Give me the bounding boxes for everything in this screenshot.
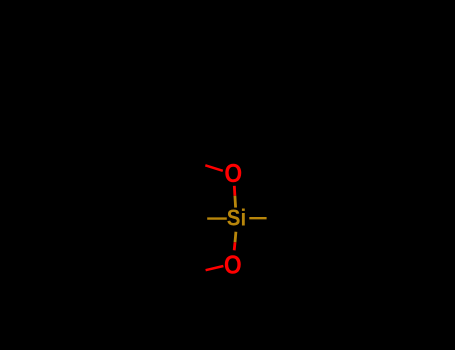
wire: methyl half-bond left of Si (orange) — [207, 217, 227, 219]
svg-text:O: O — [224, 251, 242, 279]
svg-text:O: O — [224, 160, 242, 188]
wire: methoxy C-O half-bond (top-left, red) — [205, 165, 223, 171]
wire: alkyl half-bond right of Si (orange) — [249, 217, 266, 219]
wire: Si-O2 bond lower half (red) — [233, 242, 237, 250]
wire: methoxy C-O half-bond (bottom-left, red) — [206, 266, 224, 270]
wire: Si-O2 bond upper half (orange) — [234, 232, 238, 243]
wire: O1-Si bond upper half (red) — [233, 186, 236, 196]
svg-text:Si: Si — [227, 205, 246, 231]
wire: O1-Si bond lower half (orange) — [233, 196, 237, 208]
